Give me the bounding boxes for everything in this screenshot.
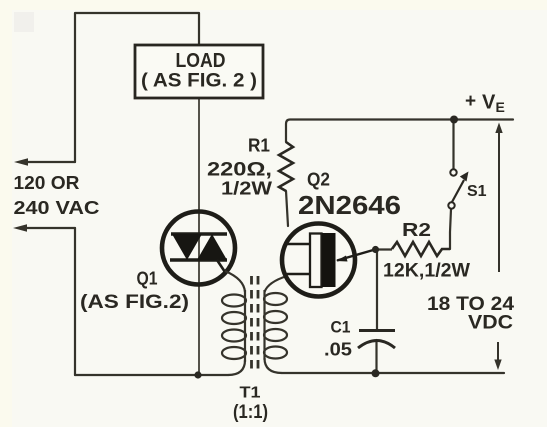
- arrowhead: AC top: [14, 158, 28, 166]
- svg-text:VDC: VDC: [468, 313, 513, 334]
- wire: Q1 gate lead into primary: [225, 271, 245, 292]
- svg-text:240 VAC: 240 VAC: [14, 198, 100, 218]
- wire: bottom rail right (UJT loop): [282, 372, 504, 374]
- wire: left lower vertical: [74, 228, 76, 375]
- svg-text:R2: R2: [402, 220, 431, 240]
- wire: emitter node to C1 top: [376, 252, 378, 330]
- svg-text:Q2: Q2: [307, 170, 330, 190]
- B2 inner lead: [285, 243, 310, 246]
- svg-text:Q1: Q1: [137, 269, 158, 289]
- svg-text:S1: S1: [467, 183, 487, 200]
- primary winding: [244, 290, 246, 362]
- capacitor C1: [358, 331, 395, 349]
- wire: R1 bottom lead to Q2: [286, 191, 288, 226]
- svg-text:T1: T1: [240, 385, 261, 402]
- svg-text:(AS FIG.2): (AS FIG.2): [80, 292, 189, 313]
- UJT Q2: [282, 224, 375, 297]
- svg-text:+: +: [465, 91, 476, 112]
- svg-text:R1: R1: [248, 136, 270, 156]
- svg-text:C1: C1: [331, 318, 351, 337]
- triac Q1: [162, 212, 235, 285]
- svg-text:120 OR: 120 OR: [14, 173, 80, 193]
- svg-text:.05: .05: [324, 340, 352, 360]
- emitter lead with arrow: [337, 250, 375, 261]
- svg-text:E: E: [496, 99, 505, 115]
- svg-text:2N2646: 2N2646: [298, 190, 401, 220]
- junction dot: emitter node: [372, 246, 379, 253]
- wire: R2 right lead up to S1: [450, 209, 451, 249]
- bar (black slab): [322, 233, 336, 287]
- arrowhead: AC bottom: [13, 224, 27, 232]
- svg-text:220Ω,: 220Ω,: [207, 159, 272, 181]
- svg-text:LOAD: LOAD: [176, 50, 226, 72]
- wire: +V top rail from R1 to right end: [286, 120, 513, 143]
- supply rail arrow down: [497, 342, 499, 362]
- svg-text:V: V: [482, 92, 496, 114]
- switch S1: [448, 169, 468, 208]
- junction dot: bottom-left: [194, 371, 201, 378]
- wire: C1 bottom lead: [375, 340, 377, 374]
- svg-text:(1:1): (1:1): [233, 402, 268, 423]
- junction dot: C1 bottom: [372, 369, 380, 377]
- primary bottom lead: [228, 360, 245, 375]
- wire: AC top feed to LOAD: [75, 13, 199, 162]
- wire: main vertical LOAD through Q1 to bottom: [198, 98, 200, 375]
- transformer T1: [222, 271, 287, 375]
- secondary winding: [263, 290, 265, 360]
- wire: S1 top contact up to +V rail: [452, 120, 454, 169]
- core: [250, 276, 253, 374]
- wire: AC source top arrow line: [22, 161, 75, 163]
- wire: AC source bottom arrow line: [21, 227, 75, 229]
- svg-text:12K,1/2W: 12K,1/2W: [383, 261, 470, 282]
- resistor R2: [392, 242, 450, 256]
- wire: emitter node to R2: [375, 248, 392, 250]
- secondary bottom lead: [265, 358, 283, 373]
- load box: [135, 45, 263, 98]
- wire: bottom rail left (AC/triac loop): [75, 374, 228, 376]
- bar (white slab): [310, 234, 322, 288]
- junction dot: +V / S1: [450, 116, 458, 124]
- secondary top lead from Q2 B1: [265, 276, 288, 292]
- resistor R1: [279, 142, 293, 191]
- svg-text:( AS FIG. 2 ): ( AS FIG. 2 ): [141, 71, 257, 92]
- svg-text:1/2W: 1/2W: [221, 179, 272, 199]
- supply rail arrow up: [498, 131, 500, 272]
- B1 inner lead: [285, 273, 310, 276]
